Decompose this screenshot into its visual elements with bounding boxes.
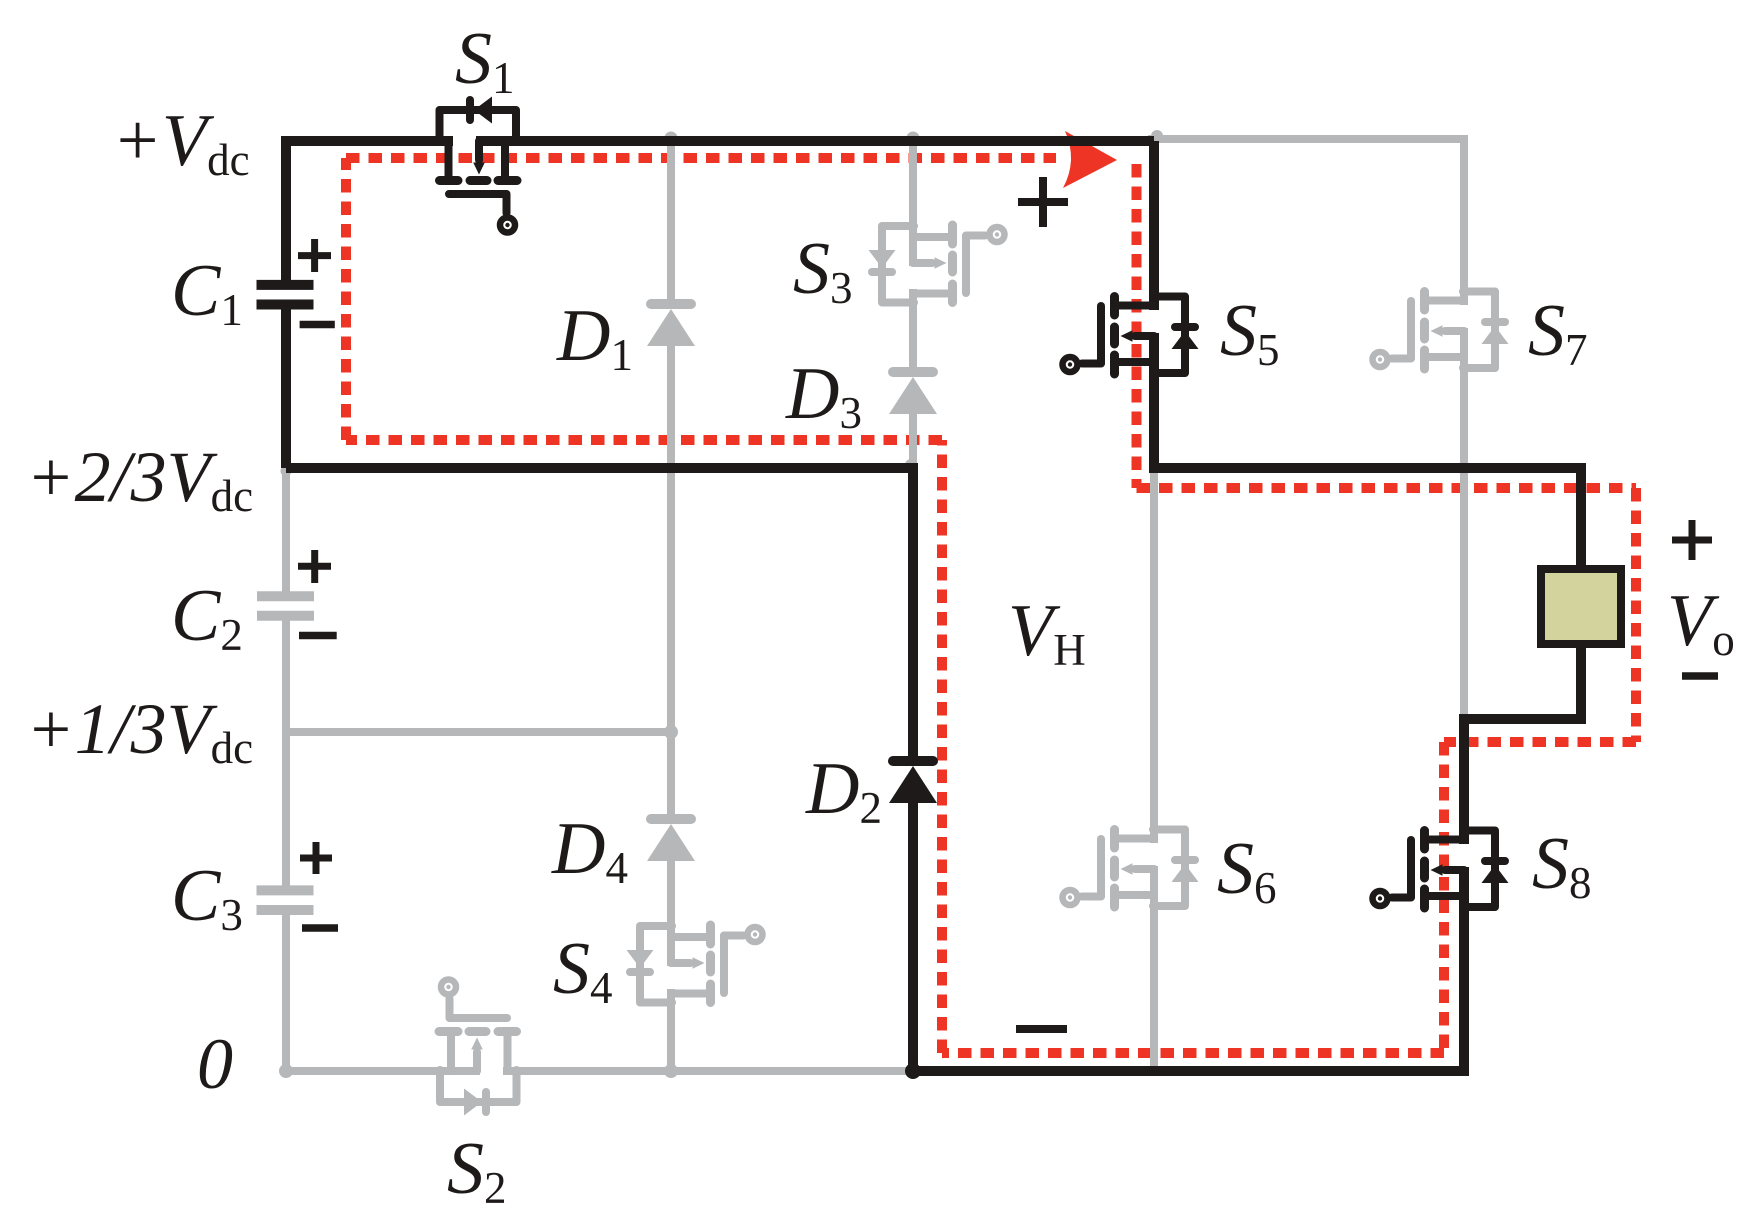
node dot 0 rail D4 column	[664, 1064, 678, 1078]
wire gray top rail right + S7 column	[1148, 139, 1464, 719]
svg-text:+2/3Vdc: +2/3Vdc	[26, 437, 253, 521]
transistor S7	[1373, 292, 1509, 370]
wire gray +1/3Vdc rail	[286, 728, 671, 736]
plus sign C3	[300, 842, 332, 874]
transistor S5	[1063, 297, 1199, 375]
wire gray S3/D3 column	[909, 141, 917, 468]
red arrowhead	[1063, 131, 1117, 188]
svg-text:S1: S1	[455, 18, 515, 103]
wire gray 0 rail	[286, 1067, 913, 1075]
wire black S5 source to load top	[1154, 333, 1581, 565]
capacitor C3	[257, 890, 314, 910]
svg-text:S7: S7	[1528, 290, 1588, 375]
node dot top rail D1	[665, 132, 678, 145]
minus sign VH	[1016, 1025, 1067, 1033]
svg-text:D3: D3	[785, 353, 862, 438]
svg-text:D4: D4	[551, 808, 628, 893]
wire black top rail right of S1	[476, 136, 1154, 146]
minus sign C3	[302, 924, 338, 932]
wire black left rail below C1	[281, 307, 291, 468]
wire gray S6 column	[1150, 468, 1158, 1071]
transistor S6	[1063, 830, 1199, 908]
transistor S4	[627, 925, 763, 1003]
diode D2	[889, 761, 937, 803]
red dashed current path: segment down through S5	[1132, 164, 1142, 488]
diode D1	[647, 304, 695, 346]
minus sign C1	[300, 321, 335, 329]
wire black top-left corner and left rail top	[286, 141, 453, 282]
minus sign C2	[299, 632, 337, 640]
diode D4	[647, 819, 695, 861]
node dot D2 bottom rail	[905, 1063, 921, 1079]
svg-text:C3: C3	[171, 855, 243, 940]
transistor S8	[1373, 831, 1509, 909]
red dashed current path: segment right through S1	[346, 153, 1056, 163]
red dashed current path: segment down right of load	[1631, 488, 1641, 742]
load resistor Vo	[1541, 569, 1621, 644]
node dot 0 rail left	[279, 1064, 293, 1078]
svg-text:C2: C2	[171, 575, 243, 660]
plus sign C2	[298, 550, 331, 583]
transistor S1	[440, 97, 518, 233]
wire gray D4/S4 column	[667, 732, 675, 1071]
red dashed current path: segment left below load	[1444, 737, 1636, 747]
svg-text:S6: S6	[1217, 828, 1277, 913]
svg-text:Vo: Vo	[1667, 580, 1735, 665]
wire gray left rail below +2/3Vdc	[282, 468, 290, 1071]
node dot top rail S3	[907, 132, 920, 145]
wire black D2 bottom and 0 rail right + S8 lower	[913, 803, 1464, 1071]
wire black load bottom to S8	[1464, 648, 1581, 844]
node dot D3 column at +2/3 rail	[905, 459, 917, 471]
wire black +2/3Vdc rail into D2 column	[286, 468, 913, 756]
plus sign Vo	[1672, 520, 1712, 560]
diode D3	[889, 372, 937, 414]
transistor S3	[869, 225, 1005, 303]
node dot +1/3Vdc junction	[664, 725, 678, 739]
svg-text:0: 0	[197, 1024, 233, 1104]
red dashed current path: segment down through S8	[1439, 742, 1449, 1053]
wire black S5 drain from top rail	[1149, 141, 1159, 310]
node dot top rail S5 corner	[1151, 130, 1163, 142]
red dashed current path: segment right toward load	[1137, 483, 1637, 493]
wire gray D1 column	[667, 141, 675, 732]
svg-text:D1: D1	[556, 295, 633, 380]
plus sign C1	[298, 239, 331, 272]
plus sign VH	[1018, 177, 1068, 227]
red dashed current path: segment up along C1	[341, 158, 351, 440]
capacitor C2	[257, 596, 314, 616]
capacitor C1	[257, 285, 314, 305]
svg-text:D2: D2	[805, 748, 882, 833]
red dashed current path: segment up through D2	[937, 440, 947, 1053]
minus sign Vo	[1682, 672, 1718, 680]
node dot left rail at +2/3 rail	[281, 466, 292, 477]
svg-text:S5: S5	[1220, 290, 1280, 375]
svg-text:S2: S2	[447, 1128, 507, 1213]
svg-text:S3: S3	[793, 228, 853, 313]
transistor S2	[439, 980, 517, 1116]
svg-text:S4: S4	[553, 928, 613, 1013]
svg-text:+Vdc: +Vdc	[112, 100, 250, 185]
svg-text:C1: C1	[171, 250, 243, 335]
svg-text:S8: S8	[1532, 823, 1592, 908]
svg-text:+1/3Vdc: +1/3Vdc	[26, 689, 253, 773]
red dashed current path: segment left below D3	[346, 435, 942, 445]
red dashed current path: segment left along 0 rail	[942, 1048, 1444, 1058]
svg-text:VH: VH	[1008, 590, 1086, 675]
